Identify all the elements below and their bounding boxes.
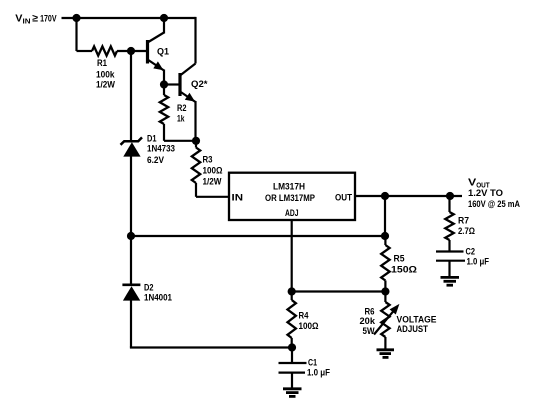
svg-text:160V @ 25 mA: 160V @ 25 mA: [468, 199, 520, 209]
svg-text:R4: R4: [299, 311, 309, 321]
svg-text:ADJ: ADJ: [285, 208, 299, 218]
svg-text:VOLTAGE: VOLTAGE: [397, 314, 437, 324]
svg-text:R1: R1: [97, 58, 107, 68]
svg-text:5W: 5W: [363, 326, 375, 336]
svg-text:Q2*: Q2*: [191, 79, 208, 89]
svg-text:1.0 μF: 1.0 μF: [467, 257, 490, 267]
svg-text:C2: C2: [466, 247, 476, 257]
svg-text:1N4001: 1N4001: [144, 293, 172, 303]
svg-text:1N4733: 1N4733: [147, 144, 175, 154]
svg-text:R6: R6: [365, 307, 375, 317]
svg-text:1/2W: 1/2W: [96, 80, 115, 90]
svg-text:Q1: Q1: [157, 47, 169, 57]
svg-text:20k: 20k: [360, 316, 377, 326]
svg-text:R2: R2: [177, 103, 187, 113]
svg-text:150Ω: 150Ω: [391, 265, 417, 275]
svg-text:1.0 μF: 1.0 μF: [307, 368, 330, 378]
svg-text:100Ω: 100Ω: [299, 321, 319, 331]
svg-text:100k: 100k: [96, 70, 115, 80]
svg-text:R3: R3: [203, 155, 213, 165]
svg-text:1.2V TO: 1.2V TO: [468, 188, 503, 198]
svg-text:6.2V: 6.2V: [147, 155, 164, 165]
svg-text:ADJUST: ADJUST: [397, 324, 429, 334]
svg-text:R5: R5: [394, 254, 405, 264]
svg-text:IN: IN: [232, 193, 244, 203]
svg-text:LM317H: LM317H: [273, 181, 305, 191]
svg-text:D1: D1: [147, 134, 157, 144]
svg-text:2.7Ω: 2.7Ω: [458, 226, 475, 236]
svg-text:R7: R7: [458, 215, 469, 225]
svg-text:1/2W: 1/2W: [203, 177, 222, 187]
svg-text:D2: D2: [144, 283, 154, 293]
svg-text:100Ω: 100Ω: [203, 166, 223, 176]
svg-text:OR LM317MP: OR LM317MP: [265, 193, 315, 203]
svg-text:OUT: OUT: [335, 193, 352, 203]
svg-text:C1: C1: [308, 358, 317, 368]
svg-text:1k: 1k: [177, 114, 185, 124]
